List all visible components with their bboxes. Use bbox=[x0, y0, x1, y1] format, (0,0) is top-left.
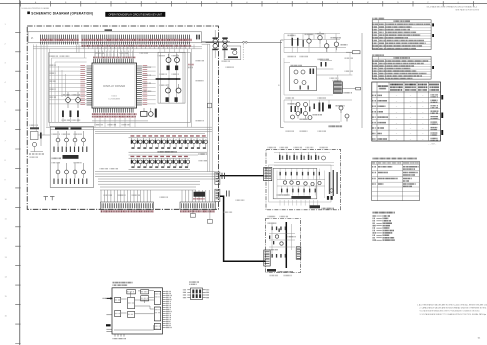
svg-text:OPERATION/DISPLAY CIRCUIT BOAR: OPERATION/DISPLAY CIRCUIT BOARD KEY UNIT bbox=[109, 13, 163, 16]
driver array row 1 (13 units R/Q) bbox=[129, 135, 208, 155]
block diagram driver box 1 bbox=[154, 291, 160, 304]
IC652 regulator (hatched) bbox=[333, 82, 342, 94]
IC list table bbox=[372, 18, 434, 50]
capacitor C602 bbox=[175, 66, 178, 71]
transistor Q621 bbox=[56, 131, 60, 146]
connector CN603 bbox=[215, 189, 220, 201]
sub board 1 label bbox=[310, 205, 334, 209]
block diagram box 7 bbox=[128, 311, 135, 317]
svg-text:DISPLAY DRIVER: DISPLAY DRIVER bbox=[103, 84, 125, 88]
reset circuit block bbox=[224, 46, 241, 60]
transistor Q623 bbox=[73, 131, 77, 146]
IC601 right pins bbox=[137, 65, 156, 105]
sub board 2 parts bbox=[268, 223, 295, 258]
block diagram driver box 3 bbox=[154, 324, 160, 330]
jumper JP601 bbox=[44, 197, 49, 201]
transistor Q663 bbox=[296, 112, 300, 119]
sub board 1 inner box bbox=[269, 165, 332, 202]
transistor Q603 bbox=[166, 84, 171, 93]
svg-text:S-0000-000 PRINTED IN JAPAN: S-0000-000 PRINTED IN JAPAN bbox=[21, 7, 49, 10]
transistor Q631 bbox=[56, 163, 60, 178]
connector CN651 bbox=[264, 168, 272, 181]
resistor row R621-R628 bbox=[54, 147, 87, 153]
svg-text:GX-5 MAIN SECTION OPERATION CI: GX-5 MAIN SECTION OPERATION CIRCUIT BOAR… bbox=[427, 5, 477, 8]
IC601 left pins bbox=[49, 65, 92, 105]
supply rail (bold) bbox=[156, 78, 181, 80]
connector CN662 bbox=[296, 247, 301, 259]
footnotes bbox=[417, 303, 487, 316]
IC601 block diagram title bbox=[113, 282, 132, 286]
cable plug marks bbox=[222, 173, 229, 197]
capacitor C601 bbox=[167, 66, 170, 71]
transistor Q661 bbox=[296, 103, 300, 110]
cable to sub board 2 bbox=[220, 196, 266, 261]
block diagram box 1 bbox=[127, 290, 136, 294]
crystal X601 bbox=[92, 108, 157, 121]
IC601 bottom pins bbox=[92, 108, 136, 127]
wire colour legend bbox=[373, 212, 394, 241]
svg-text:3. VOLTAGES ARE SUBJECT TO CHA: 3. VOLTAGES ARE SUBJECT TO CHANGE WITHOU… bbox=[420, 313, 487, 316]
connector CN601 (key matrix strip) bbox=[28, 29, 202, 47]
transistor Q662 bbox=[304, 103, 308, 110]
audio input block bbox=[50, 127, 93, 188]
transistor Q653 bbox=[325, 40, 329, 52]
shield box around IC601 bbox=[49, 53, 191, 123]
operation board outline (dash-dot) bbox=[27, 26, 218, 209]
resistor row R631-R638 bbox=[54, 179, 87, 185]
transistor Q602 bbox=[175, 54, 180, 63]
transistor Q664 bbox=[304, 112, 308, 119]
transistor Q609 bbox=[66, 92, 71, 108]
wire to power block bbox=[206, 41, 282, 60]
svg-text:LC75853NW: LC75853NW bbox=[108, 98, 120, 100]
IC602 pin diagram bbox=[183, 288, 209, 300]
board name banner bbox=[105, 12, 165, 17]
transistor Q622 bbox=[65, 131, 69, 146]
svg-text:VOLTAGES ARE MEASURED WITH VTV: VOLTAGES ARE MEASURED WITH VTVM AGAINST … bbox=[420, 310, 481, 313]
transistor Q601 bbox=[166, 54, 171, 63]
transistor Q666 bbox=[345, 114, 349, 121]
power feed trunk bbox=[285, 222, 287, 268]
interchangeability table bbox=[372, 158, 420, 201]
transistor Q652 bbox=[318, 32, 322, 44]
transistor list table bbox=[372, 54, 434, 79]
power mid regulator box bbox=[290, 67, 317, 91]
sub board 2 label bbox=[267, 269, 292, 273]
power section bracket bbox=[278, 40, 283, 128]
wires from CN601 to left circuits bbox=[34, 44, 85, 135]
signal label L601 bbox=[346, 51, 360, 54]
label block bbox=[52, 155, 79, 159]
transistor Q633 bbox=[73, 163, 77, 178]
sub board 1 right column bbox=[329, 170, 338, 196]
remote sensor circuit bbox=[30, 127, 51, 154]
transistor Q632 bbox=[65, 163, 69, 178]
test point label TP601 bbox=[190, 209, 195, 217]
power bottom label bbox=[329, 125, 342, 127]
sub board 2 outline bbox=[266, 219, 301, 273]
block diagram bottom pins bbox=[113, 334, 125, 339]
svg-text:2. CAPACITANCE VALUES ARE IN M: 2. CAPACITANCE VALUES ARE IN MICROFARAD … bbox=[420, 307, 487, 310]
jumper JP602 bbox=[50, 197, 55, 201]
connector CN606 small bbox=[194, 192, 206, 200]
connector CN604 bbox=[101, 202, 154, 213]
sub board 1 top parts row bbox=[274, 152, 334, 165]
cable to sub board 1 bbox=[220, 175, 264, 177]
power section right rail bbox=[361, 33, 363, 128]
block diagram internal wires bbox=[114, 291, 154, 330]
connector CN661 bbox=[264, 250, 270, 266]
vertical wires in shield box bbox=[52, 58, 87, 122]
wires transistor bank to CN601 bbox=[160, 45, 193, 128]
transistor Q654 bbox=[334, 38, 338, 50]
transistor Q604 bbox=[176, 84, 181, 93]
transistor Q665 bbox=[339, 106, 343, 113]
connector CN605 bbox=[180, 202, 216, 213]
svg-text:J: J bbox=[277, 2, 278, 4]
driver array row 2 (10 units R/Q) bbox=[129, 156, 191, 170]
sub board 1 outline bbox=[266, 149, 341, 210]
test point label TP602 bbox=[207, 209, 212, 223]
horizontal bus lines upper bbox=[46, 127, 212, 133]
capacitor C603 bbox=[166, 97, 169, 102]
connector CN602 bbox=[215, 172, 220, 184]
IC601 display driver (QFP) bbox=[92, 63, 137, 108]
svg-text:SCHEMATIC DIAGRAM (OPERATION): SCHEMATIC DIAGRAM (OPERATION) bbox=[31, 12, 93, 16]
sheet model note bbox=[21, 5, 479, 11]
capacitor C604 bbox=[175, 97, 178, 102]
transistor Q624 bbox=[82, 131, 86, 146]
power top circuit bbox=[284, 33, 352, 53]
block diagram box 4 bbox=[115, 297, 121, 302]
IC601 top pins bbox=[94, 51, 136, 63]
wire bus below CN601 bbox=[33, 41, 230, 52]
svg-text:SEE PAGE 58 FOR NOTES: SEE PAGE 58 FOR NOTES bbox=[455, 8, 479, 11]
svg-text:1. ALL RESISTANCE VALUES ARE I: 1. ALL RESISTANCE VALUES ARE IN OHM. K=1… bbox=[417, 303, 487, 306]
sub board 1 inner parts bbox=[277, 169, 333, 206]
transistor Q634 bbox=[82, 163, 86, 178]
sheet title bbox=[27, 12, 93, 16]
power bottom circuit bbox=[284, 100, 352, 122]
resistor array R611-R613 bbox=[62, 111, 79, 123]
svg-text:← – XXX –: ← – XXX – bbox=[428, 143, 436, 145]
signal label L602 bbox=[356, 87, 361, 90]
wires CN601 to IC601 top bbox=[95, 45, 133, 59]
block diagram box 6 bbox=[115, 311, 121, 317]
block diagram right pins bbox=[163, 291, 172, 328]
transistor pair Q641/Q642 bbox=[213, 30, 218, 58]
block diagram box 5 bbox=[128, 297, 135, 308]
power mid wires bbox=[284, 53, 356, 96]
block diagram driver box 2 bbox=[154, 307, 160, 321]
misc component value labels bbox=[30, 52, 353, 276]
svg-text:IC601: IC601 bbox=[112, 96, 118, 98]
block diagram box 2 bbox=[141, 290, 149, 294]
IC601 block diagram outline bbox=[112, 288, 163, 334]
wires right columns bbox=[207, 45, 212, 191]
transistor pair Q643/Q644 bbox=[222, 37, 227, 58]
transistor bank box bbox=[158, 52, 185, 103]
transistor Q610 bbox=[76, 92, 81, 108]
transistor Q651 bbox=[307, 35, 311, 47]
block diagram box 3 bbox=[141, 296, 149, 301]
IC602 pin diagram title bbox=[190, 281, 199, 285]
horizontal bus lines lower bbox=[95, 172, 215, 202]
block diagram left pins bbox=[103, 297, 113, 332]
voltage table bbox=[372, 82, 443, 145]
